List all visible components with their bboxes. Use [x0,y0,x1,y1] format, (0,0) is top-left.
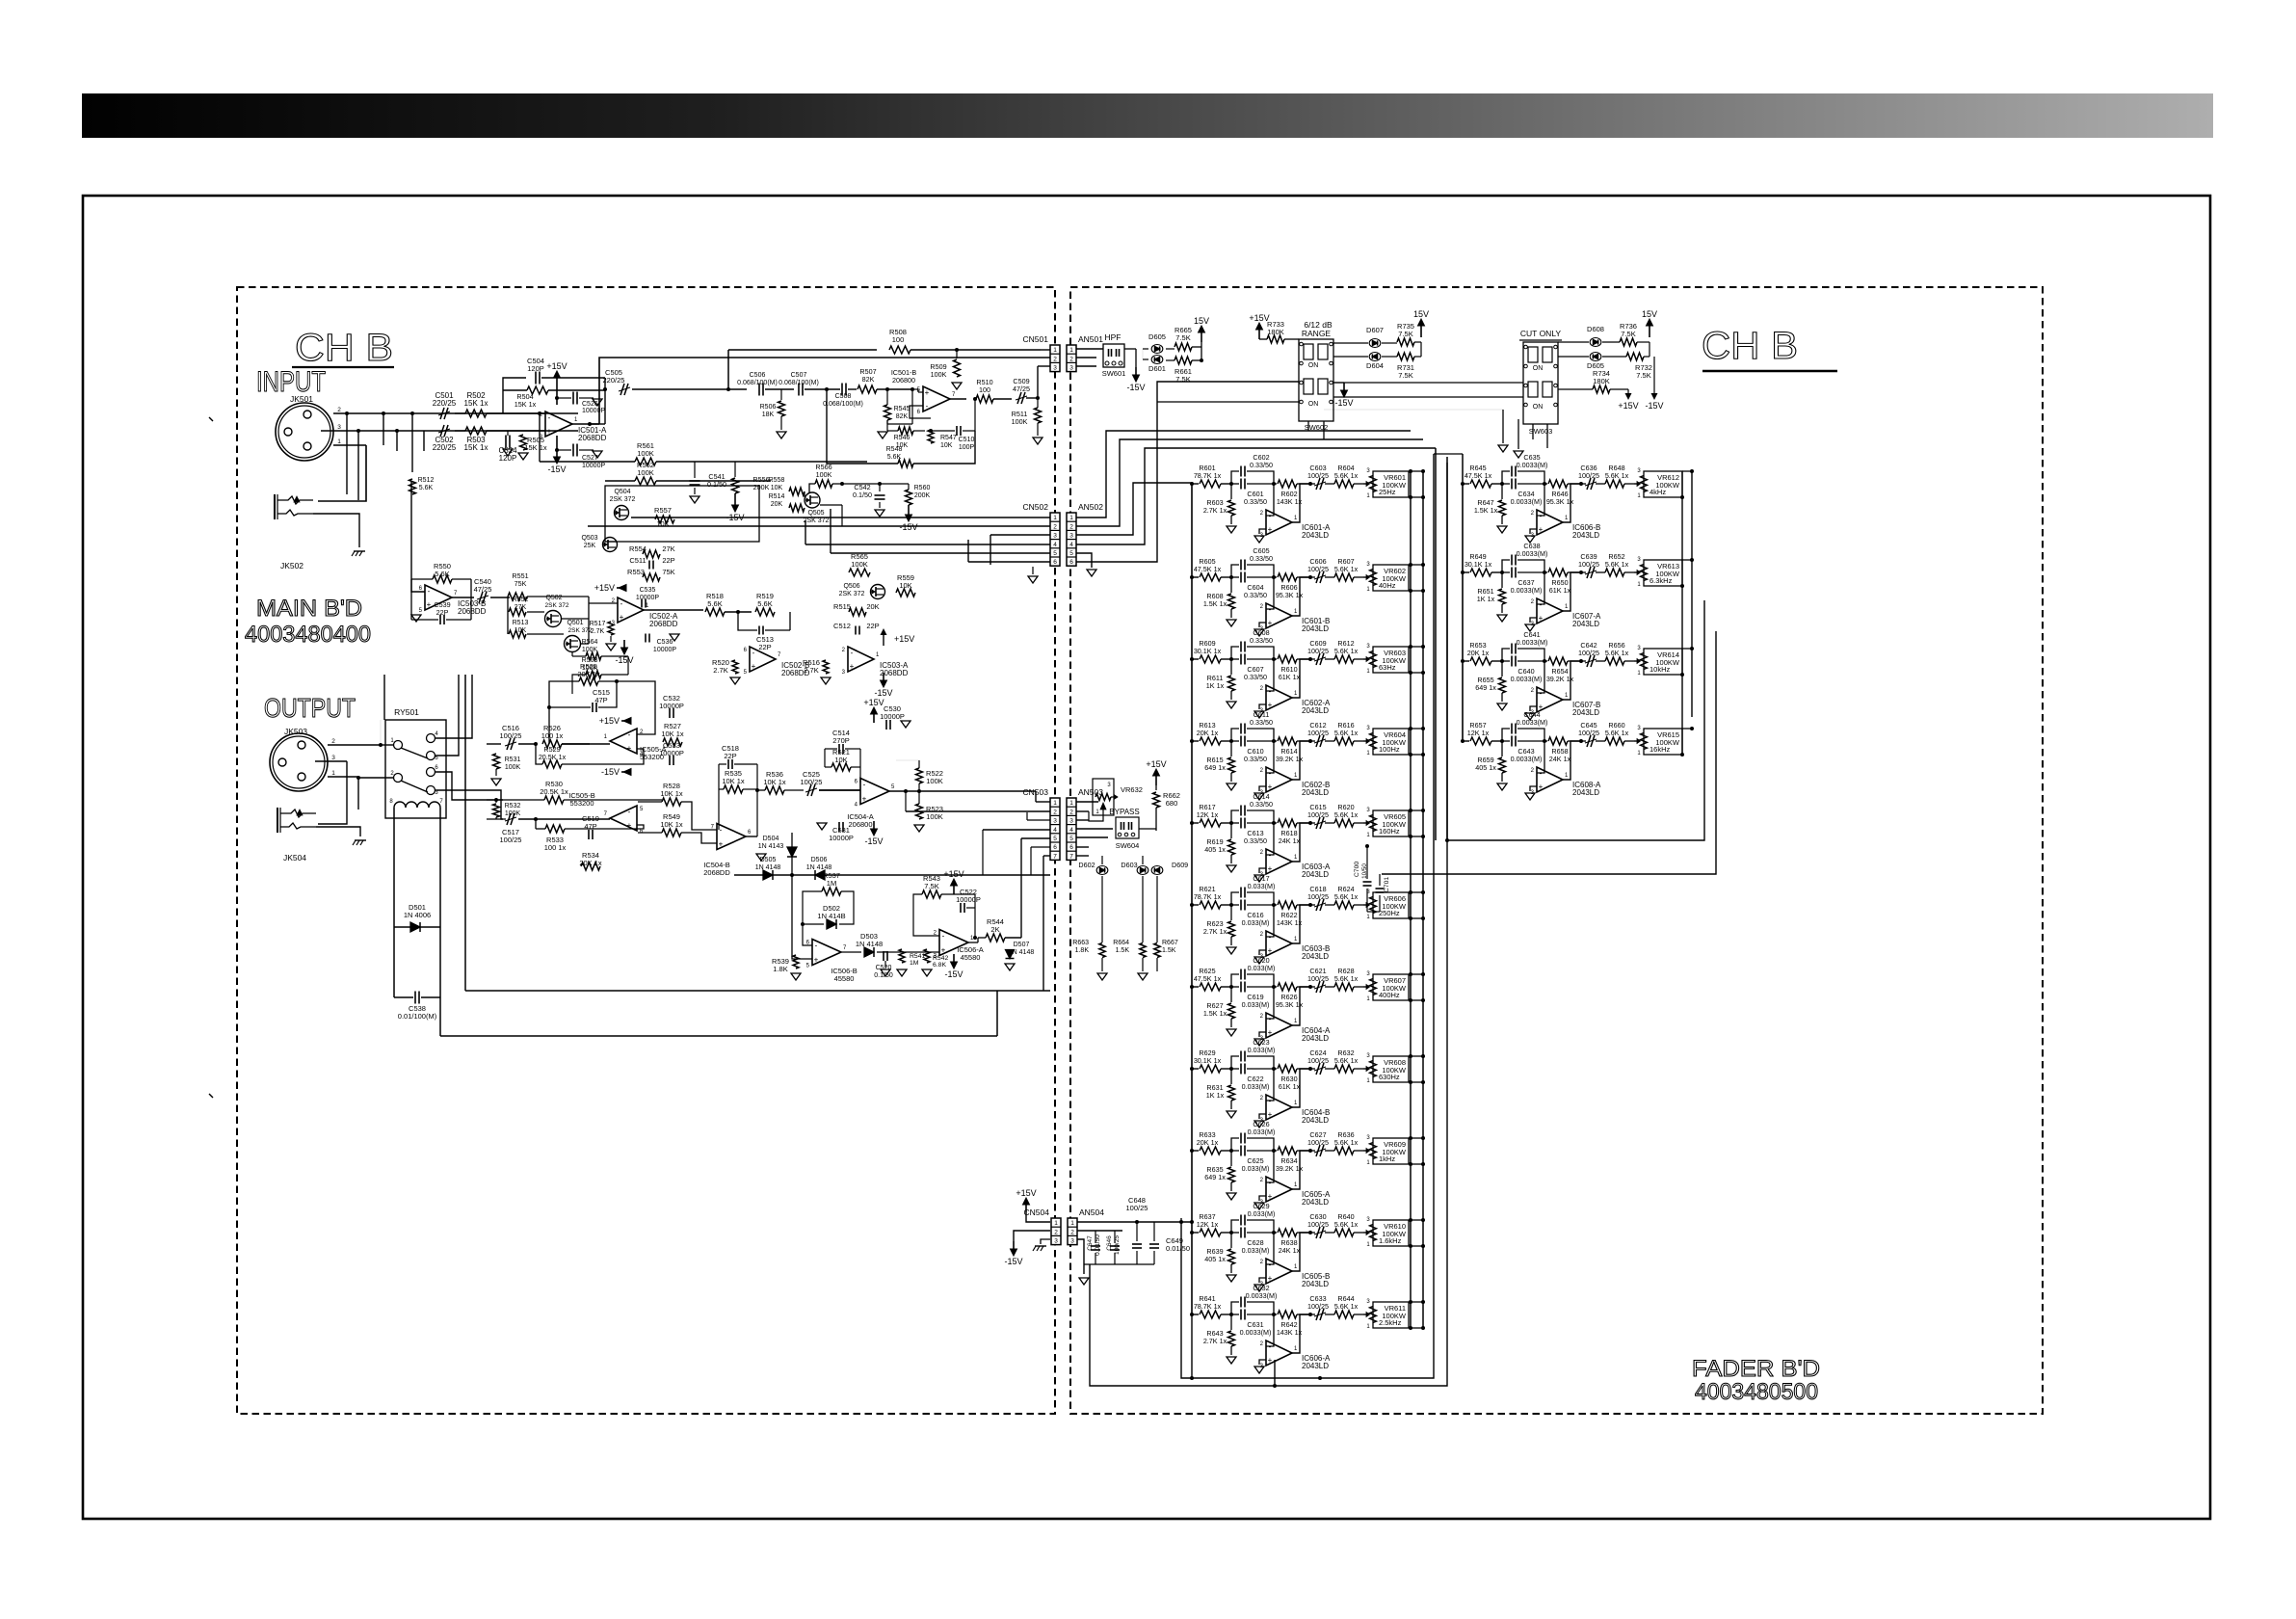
svg-text:3: 3 [1070,1238,1074,1245]
svg-text:SW604: SW604 [1116,841,1140,850]
svg-text:+: + [814,956,819,965]
feedback wire R602 [1309,483,1311,485]
svg-text:100K: 100K [816,470,832,479]
svg-text:1N 4143: 1N 4143 [758,843,784,850]
svg-text:61K 1x: 61K 1x [1279,673,1301,681]
svg-text:7.5K: 7.5K [1621,330,1635,338]
ground CN504 [1041,1239,1050,1244]
wire VR611 to bus [1409,1301,1423,1303]
op-amp IC504-A [860,779,889,805]
svg-text:100: 100 [979,385,990,394]
svg-text:100K: 100K [926,812,943,821]
power +15V IC503-A [883,635,884,646]
svg-text:10000P: 10000P [582,463,605,469]
svg-text:+: + [427,600,432,609]
svg-text:143K 1x: 143K 1x [1277,918,1303,927]
svg-text:20.5K 1x: 20.5K 1x [540,787,568,796]
svg-text:24K 1x: 24K 1x [1279,1246,1301,1255]
svg-text:1K 1x: 1K 1x [1206,681,1225,690]
resistor R660 [1605,737,1624,745]
svg-text:15K 1x: 15K 1x [464,443,488,452]
svg-text:0.01/50: 0.01/50 [1166,1244,1190,1253]
wire relay bottom rail [439,997,441,1036]
svg-text:24K 1x: 24K 1x [1279,836,1301,845]
svg-text:RANGE: RANGE [1302,329,1332,338]
connector CN503 [1050,798,1060,860]
svg-text:R512: R512 [418,477,435,484]
LED D604 [1369,353,1381,361]
resistor R614 [1274,740,1277,742]
resistor R650 [1544,571,1547,573]
svg-text:12K 1x: 12K 1x [1197,1220,1219,1229]
fold mark left lower [209,1094,213,1098]
wire JK503 pins [328,744,381,746]
fold mark left upper [209,417,213,421]
trimmer VR632 [1093,779,1114,815]
svg-text:CN501: CN501 [1023,334,1049,344]
svg-text:R545: R545 [894,406,910,412]
svg-text:2: 2 [1053,809,1057,815]
svg-text:100/25: 100/25 [1307,1056,1329,1065]
svg-text:+: + [547,427,552,436]
feedback wire R630 [1309,1068,1311,1070]
wire IC606-B output [1563,484,1581,522]
svg-text:2: 2 [1070,1229,1074,1235]
svg-text:20K 1x: 20K 1x [1467,649,1490,657]
svg-text:0.033(M): 0.033(M) [1248,964,1276,972]
wire EQ riser bus D [1446,457,1448,840]
svg-text:400Hz: 400Hz [1379,991,1400,999]
svg-text:25K: 25K [584,543,596,549]
op-amp IC602-B [1266,741,1274,773]
ground AN502 [1087,570,1096,576]
svg-text:20K: 20K [866,602,879,611]
wire IC506-B output to D503 [841,951,861,953]
FADER board dashed outline [1070,287,2043,1414]
resistor R608 [1230,577,1232,593]
svg-text:10kHz: 10kHz [1649,665,1671,674]
svg-text:47.5K 1x: 47.5K 1x [1194,565,1222,573]
svg-text:100K: 100K [505,810,521,817]
svg-text:0.0033(M): 0.0033(M) [1517,549,1548,558]
resistor R619 [1230,823,1232,838]
box 100Hz [1373,729,1409,755]
wire R525 C515 feedback [549,681,579,744]
ground R651 [1497,615,1507,622]
svg-text:5.6K 1x: 5.6K 1x [1605,649,1629,657]
svg-text:10K: 10K [940,442,953,449]
wire VR612 to right bus [1682,470,1692,472]
svg-text:2.7K: 2.7K [713,666,727,675]
resistor R545 [886,389,888,405]
svg-text:-: - [926,402,929,411]
svg-text:CH B: CH B [295,327,393,369]
box 630Hz [1373,1056,1409,1082]
svg-text:R514: R514 [769,493,785,500]
power -15V SW602 [1333,382,1344,384]
svg-text:206800: 206800 [892,376,915,385]
wire IC608-A output [1563,741,1581,780]
svg-text:FADER B'D: FADER B'D [1692,1356,1820,1382]
svg-text:630Hz: 630Hz [1379,1073,1400,1081]
svg-text:0.33/50: 0.33/50 [1250,800,1273,809]
svg-text:2.7K 1x: 2.7K 1x [1203,506,1227,515]
op-amp IC605-A [1266,1151,1274,1182]
svg-text:649 1x: 649 1x [1204,1173,1226,1181]
svg-text:C508: C508 [835,393,852,400]
svg-text:-: - [1269,1015,1272,1023]
svg-text:2043LD: 2043LD [1302,706,1329,715]
wire VR609 to bus [1409,1137,1423,1139]
svg-text:100/25: 100/25 [1307,1302,1329,1311]
svg-text:1: 1 [337,438,341,445]
svg-text:3: 3 [1053,365,1057,372]
phone jack JK504 [277,808,278,833]
svg-text:10000P: 10000P [636,595,659,601]
svg-text:2043LD: 2043LD [1302,1362,1329,1370]
svg-text:180K: 180K [1267,328,1284,336]
svg-text:3: 3 [1053,533,1057,540]
wire SW602 to SW603 [1333,396,1523,398]
resistor R621 [1190,903,1194,907]
wire AN504 rails [1077,1221,1192,1223]
svg-text:+15V: +15V [894,634,914,644]
svg-text:10000P: 10000P [880,712,905,721]
svg-text:-: - [942,932,945,941]
svg-text:+: + [1268,783,1273,791]
wire VR614 to right bus [1682,648,1692,650]
svg-text:-: - [815,942,818,950]
svg-text:5.6K 1x: 5.6K 1x [1334,974,1359,983]
svg-text:100K: 100K [851,560,868,569]
svg-text:C700: C700 [1354,862,1360,877]
feedback wire R646 [1580,483,1582,485]
svg-text:-15V: -15V [944,969,963,979]
op-amp IC601-B [1266,577,1274,609]
svg-text:R547: R547 [940,435,957,441]
resistor R627 [1230,987,1232,1002]
svg-text:C506: C506 [750,372,766,379]
wire Q505 source [820,504,842,506]
phone jack JK502 [274,494,276,519]
resistor R505 [520,435,527,450]
resistor R605 [1190,575,1194,579]
wire R543 C522 loop [913,894,939,936]
wire EQ right input bus [1462,484,1464,741]
resistor R528a [518,743,536,745]
wire VR632 wiper [1111,796,1118,798]
box 250Hz [1373,892,1409,918]
svg-text:12K 1x: 12K 1x [1197,810,1219,819]
ground IC601-B [1254,629,1264,636]
ground R627 [1227,1029,1236,1036]
svg-text:3: 3 [1053,818,1057,825]
wire IC601-B output [1292,577,1310,616]
svg-text:15V: 15V [1642,309,1657,319]
svg-text:100P: 100P [959,444,975,451]
svg-text:1.5K 1x: 1.5K 1x [1203,1009,1227,1018]
svg-text:-: - [428,587,431,596]
capacitor C634 [1502,483,1510,485]
svg-text:+: + [627,744,632,753]
svg-text:2043LD: 2043LD [1302,1034,1329,1043]
capacitor C541 [694,462,696,478]
resistor R616 [1334,737,1354,745]
svg-text:1M: 1M [910,960,919,967]
wire VR606 to bus [1409,891,1423,893]
svg-text:D604: D604 [1366,361,1384,370]
svg-text:649 1x: 649 1x [1204,763,1226,772]
relay coil [394,802,406,808]
svg-text:D609: D609 [1172,861,1188,869]
power +15V IC504-A [873,714,875,723]
svg-text:2SK 372: 2SK 372 [545,602,569,609]
ground IC603-A [1254,875,1264,882]
svg-text:R517: R517 [590,621,606,627]
wire C518 R535 loop [719,763,726,765]
power -15V CN504 [1014,1231,1050,1241]
svg-text:1: 1 [1070,1220,1074,1227]
svg-text:0.033(M): 0.033(M) [1242,918,1270,927]
wire IC605-B output [1292,1233,1310,1271]
svg-text:2043LD: 2043LD [1572,531,1599,540]
capacitor C636 [1581,483,1586,485]
svg-text:680: 680 [1166,799,1178,808]
capacitor C627 [1310,1150,1315,1152]
svg-text:0.33/50: 0.33/50 [1244,836,1267,845]
svg-text:MAIN B'D: MAIN B'D [256,596,362,622]
wire EQ left bus A [1410,471,1412,1328]
svg-text:100/25: 100/25 [1578,649,1599,657]
op-amp IC503-A [848,647,874,672]
op-amp IC506-A [939,930,968,956]
svg-text:61K 1x: 61K 1x [1549,586,1571,595]
svg-text:D607: D607 [1366,326,1384,334]
svg-text:2.7K: 2.7K [804,666,818,675]
ground CN502 [1032,567,1034,574]
svg-text:1N 4148: 1N 4148 [755,864,781,871]
wire input bus verticals [411,413,413,472]
op-amp IC606-A [1266,1314,1274,1346]
svg-text:+15V: +15V [594,583,615,593]
connector AN501 [1067,345,1076,372]
svg-text:C511: C511 [629,556,646,565]
op-amp IC601-A [1266,484,1274,516]
op-amp IC606-B [1537,484,1544,516]
resistor R638 [1274,1232,1277,1234]
resistor R503 [465,427,487,435]
resistor R624 [1334,901,1354,909]
ground IC605-B [1254,1285,1264,1291]
wire R564 R563 rails [571,651,573,656]
capacitor C637 [1502,571,1510,573]
resistor R732 [1626,353,1644,360]
svg-text:Q505: Q505 [807,510,824,517]
resistor R625 [1190,985,1194,989]
wire XLR1 to relay [358,780,393,782]
svg-text:4kHz: 4kHz [1649,488,1666,496]
resistor R617 [1190,821,1194,825]
resistor R546 [898,427,913,435]
svg-text:R531: R531 [505,756,521,763]
resistor R655 [1501,661,1503,677]
svg-text:0.33/50: 0.33/50 [1250,461,1273,469]
ground AN504 [1079,1278,1089,1285]
svg-text:4: 4 [1053,827,1057,834]
svg-text:4003480500: 4003480500 [1695,1379,1818,1405]
box 40Hz [1373,565,1409,591]
capacitor C642 [1581,660,1586,662]
ground IC607-B [1525,713,1535,720]
capacitor C624 [1310,1068,1315,1070]
wire to op-amp [455,412,465,414]
LED D601 [1151,356,1163,364]
svg-text:100Hz: 100Hz [1379,745,1400,754]
svg-text:AN501: AN501 [1078,334,1103,344]
resistor R631 [1230,1069,1232,1084]
resistor R629 [1190,1067,1194,1071]
svg-text:0.0033(M): 0.0033(M) [1517,461,1548,469]
svg-text:7.5K: 7.5K [1175,333,1190,342]
capacitor C615 [1310,822,1315,824]
svg-text:0.033(M): 0.033(M) [1248,1046,1276,1054]
svg-text:-15V: -15V [547,464,566,474]
svg-text:R515: R515 [833,602,851,611]
ground R603 [1227,526,1236,533]
svg-text:45580: 45580 [961,953,981,962]
feedback box C504 R504 [503,378,526,413]
svg-text:-15V: -15V [1004,1257,1022,1266]
power -15V IC505 [621,771,631,773]
svg-text:30.1K 1x: 30.1K 1x [1465,560,1492,569]
wire R549 to IC504-B [638,832,662,834]
svg-text:R548: R548 [886,446,903,453]
svg-text:15K 1x: 15K 1x [464,399,488,408]
svg-text:1: 1 [1053,347,1057,354]
svg-text:2043LD: 2043LD [1302,624,1329,633]
svg-text:Q506: Q506 [843,583,859,590]
op-amp IC506-B [812,940,841,966]
svg-text:2068DD: 2068DD [703,868,730,877]
svg-text:45580: 45580 [834,974,855,983]
svg-text:22P: 22P [866,622,879,630]
svg-text:-: - [863,781,866,789]
svg-text:-: - [1540,512,1543,520]
svg-text:-: - [1269,933,1272,942]
svg-text:AN502: AN502 [1078,502,1103,512]
op-amp IC504-B [717,824,746,850]
svg-text:+: + [941,946,946,955]
svg-text:75K: 75K [662,568,674,576]
svg-text:1K 1x: 1K 1x [1477,595,1495,603]
svg-text:-: - [1269,769,1272,778]
ground harness a [1502,410,1504,443]
svg-text:D601: D601 [1148,364,1166,373]
wire EQ input bus [1191,484,1193,1314]
wire R536 C525 chain [757,789,765,791]
wire input verticals [346,413,348,494]
wire IC607-B output [1563,661,1581,700]
svg-text:+15V: +15V [1016,1188,1036,1198]
power -15V IC502-A [623,640,625,648]
svg-text:+: + [1268,701,1273,709]
svg-text:D603: D603 [1121,861,1137,869]
wire IC506-A output [968,942,978,943]
svg-text:5: 5 [1053,836,1057,842]
capacitor C542 [879,484,881,491]
svg-text:3: 3 [1069,818,1073,825]
svg-text:1.5K: 1.5K [1116,947,1130,954]
svg-text:100K: 100K [1012,417,1028,426]
svg-text:3: 3 [337,424,341,431]
svg-text:1.5K: 1.5K [1162,947,1176,954]
capacitor C622 [1231,1068,1239,1070]
svg-text:20K 1x: 20K 1x [1197,729,1219,737]
power +15V SW603 [1610,388,1628,390]
capacitor C639 [1581,571,1586,573]
capacitor C645 [1581,740,1586,742]
op-amp IC502-B [750,647,776,672]
svg-text:R664: R664 [1113,940,1129,946]
svg-text:-: - [752,649,755,657]
svg-text:-15V: -15V [864,836,883,846]
resistor R664 [1140,943,1146,958]
resistor R556 [734,462,736,477]
power -15V R560 [908,505,910,515]
resistor R634 [1274,1150,1277,1152]
capacitor C604 [1231,576,1239,578]
ground IC602-A [1254,711,1264,718]
svg-text:2043LD: 2043LD [1572,788,1599,797]
MAIN board dashed outline [237,287,1055,1414]
ground R659 [1497,783,1507,790]
capacitor C635 [1502,471,1510,484]
wire CN503 pin6 stub [1031,846,1050,848]
capacitor C610 [1231,740,1239,742]
svg-text:2: 2 [1069,809,1073,815]
resistor R602 [1274,483,1277,485]
svg-text:2043LD: 2043LD [1302,1116,1329,1125]
svg-text:0.33/50: 0.33/50 [1244,591,1267,599]
wire IC603-A output [1292,823,1310,862]
resistor R613 [1190,739,1194,743]
svg-text:10000P: 10000P [659,749,684,757]
svg-text:-: - [1540,769,1543,778]
svg-text:-: - [1269,1179,1272,1187]
svg-text:AN503: AN503 [1078,787,1103,797]
svg-text:2.5kHz: 2.5kHz [1379,1318,1402,1327]
wire IC601-A output [1292,484,1310,522]
svg-text:D505: D505 [760,857,777,863]
ground IC602-B [1254,793,1264,800]
svg-text:27K: 27K [662,544,674,553]
resistor R609 [1190,657,1194,661]
wire IC607-A output [1563,572,1581,611]
svg-text:CN503: CN503 [1023,787,1049,797]
svg-text:0.33/50: 0.33/50 [1250,636,1273,645]
svg-text:1: 1 [1069,800,1073,807]
svg-text:C535: C535 [640,587,656,594]
capacitor C628 [1231,1232,1239,1234]
svg-text:20K: 20K [771,501,783,508]
svg-text:1N 4148: 1N 4148 [806,864,832,871]
svg-text:100K: 100K [637,468,654,477]
svg-text:+: + [1268,946,1273,955]
svg-text:2043LD: 2043LD [1572,620,1599,628]
wire R561 bus [540,461,635,463]
svg-text:+15V: +15V [1618,401,1638,411]
svg-text:100 1x: 100 1x [544,843,567,852]
